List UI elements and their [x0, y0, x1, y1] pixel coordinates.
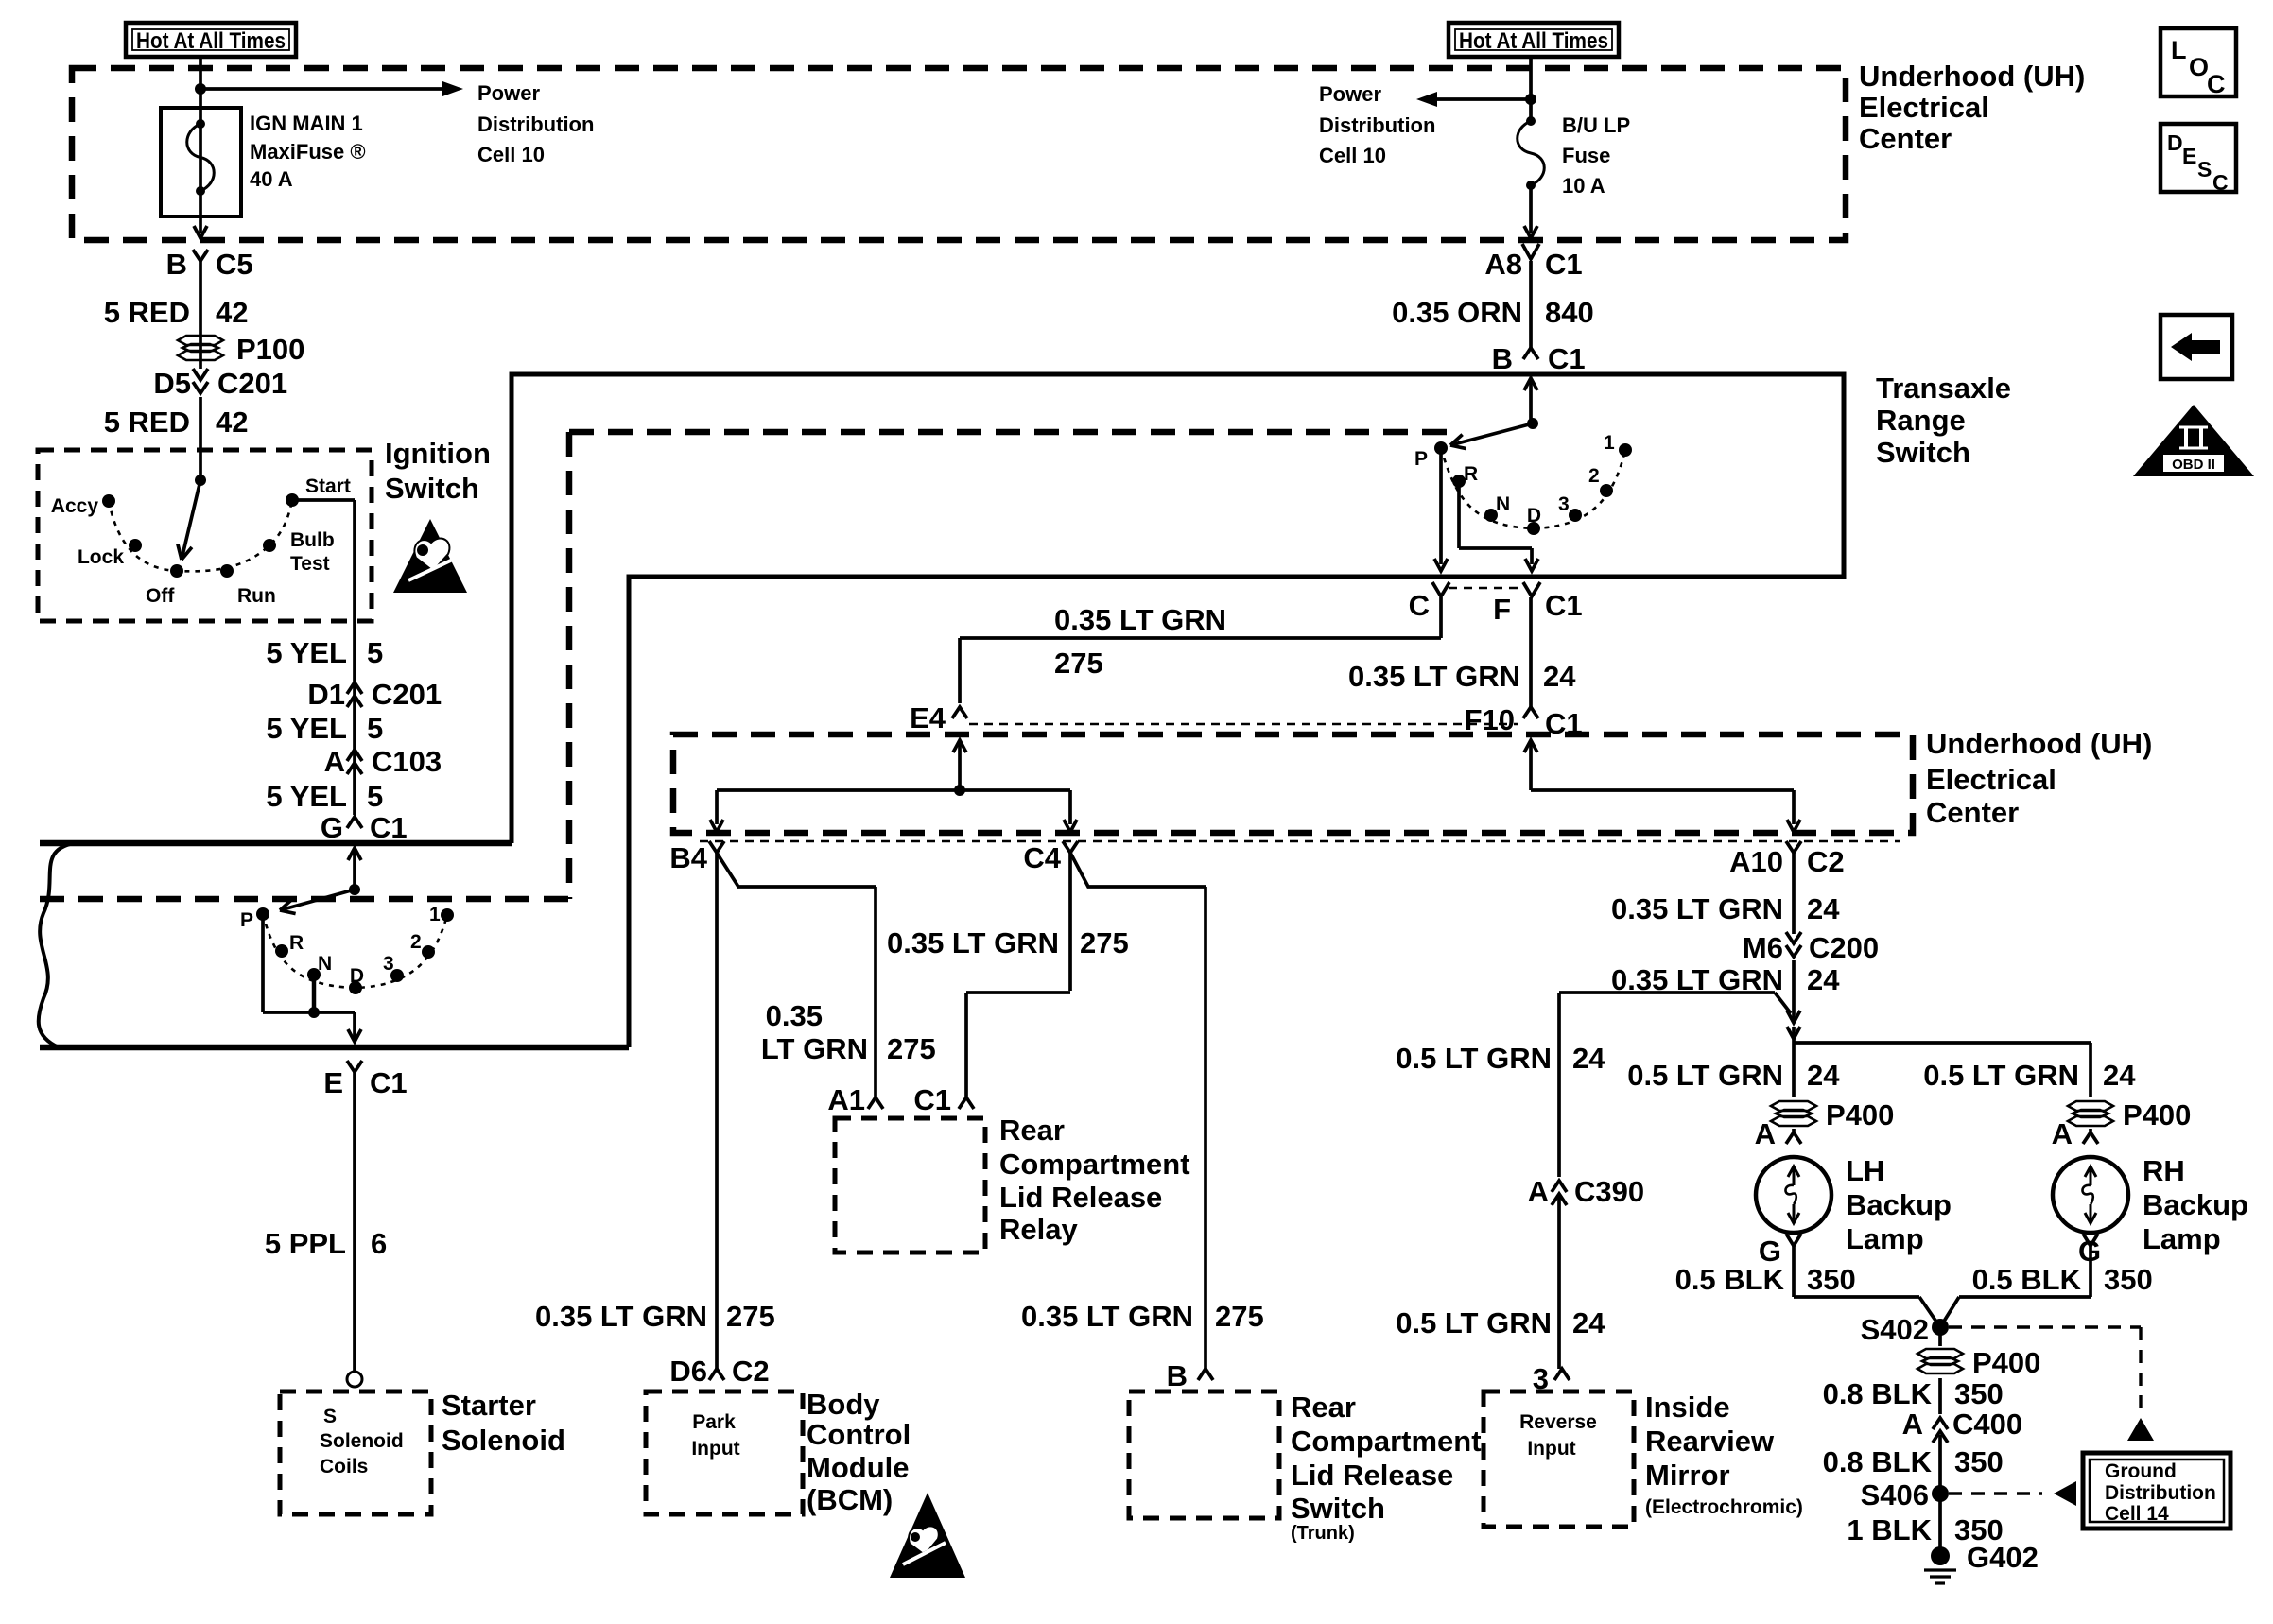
svg-text:3: 3: [1558, 493, 1570, 515]
svg-text:C1: C1: [913, 1083, 951, 1116]
svg-text:LH: LH: [1846, 1154, 1884, 1187]
svg-text:Input: Input: [1527, 1438, 1575, 1460]
svg-text:Center: Center: [1859, 122, 1952, 155]
svg-text:D: D: [2167, 130, 2183, 155]
svg-text:Module: Module: [807, 1451, 910, 1484]
svg-text:1: 1: [429, 904, 441, 925]
svg-text:C1: C1: [370, 811, 408, 844]
svg-text:Ground: Ground: [2105, 1460, 2177, 1482]
svg-text:S402: S402: [1861, 1313, 1929, 1346]
svg-text:1: 1: [1604, 432, 1615, 454]
svg-text:(Electrochromic): (Electrochromic): [1645, 1496, 1803, 1518]
svg-text:C2: C2: [732, 1355, 770, 1388]
svg-text:Mirror: Mirror: [1645, 1459, 1730, 1492]
svg-text:Test: Test: [290, 553, 330, 575]
svg-text:O: O: [2189, 53, 2209, 81]
svg-text:Bulb: Bulb: [290, 529, 335, 551]
svg-text:5 PPL: 5 PPL: [265, 1227, 346, 1260]
svg-text:Relay: Relay: [999, 1213, 1078, 1246]
svg-text:5 RED: 5 RED: [104, 296, 190, 329]
svg-text:D1: D1: [307, 678, 345, 711]
svg-text:Fuse: Fuse: [1562, 144, 1610, 167]
svg-text:Switch: Switch: [385, 472, 479, 505]
svg-text:C: C: [2207, 70, 2226, 98]
svg-text:Inside: Inside: [1645, 1391, 1730, 1424]
svg-text:C1: C1: [1545, 248, 1583, 281]
svg-text:24: 24: [1543, 660, 1576, 693]
svg-text:Starter: Starter: [442, 1389, 536, 1422]
svg-text:275: 275: [1215, 1300, 1264, 1333]
svg-text:Hot At All Times: Hot At All Times: [1459, 28, 1608, 54]
svg-text:0.35 LT GRN: 0.35 LT GRN: [1611, 892, 1783, 925]
svg-text:Compartment: Compartment: [1291, 1425, 1482, 1458]
svg-text:IGN MAIN 1: IGN MAIN 1: [250, 112, 363, 135]
svg-text:Lamp: Lamp: [1846, 1222, 1924, 1255]
svg-text:C400: C400: [1952, 1408, 2022, 1441]
svg-text:Backup: Backup: [2143, 1188, 2248, 1221]
svg-text:0.8 BLK: 0.8 BLK: [1823, 1445, 1933, 1478]
svg-text:Control: Control: [807, 1418, 911, 1451]
svg-text:Distribution: Distribution: [2105, 1482, 2216, 1504]
svg-text:Power: Power: [477, 81, 540, 105]
svg-text:24: 24: [1572, 1042, 1605, 1075]
svg-text:R: R: [289, 932, 304, 954]
svg-text:P: P: [1414, 448, 1428, 470]
svg-text:A: A: [1755, 1117, 1776, 1150]
svg-text:42: 42: [216, 296, 248, 329]
svg-text:Underhood (UH): Underhood (UH): [1926, 727, 2152, 760]
svg-text:F: F: [1493, 593, 1511, 626]
svg-text:0.5 BLK: 0.5 BLK: [1972, 1263, 2082, 1296]
svg-text:A10: A10: [1729, 845, 1783, 878]
svg-text:Solenoid: Solenoid: [442, 1424, 565, 1457]
svg-text:RH: RH: [2143, 1154, 2185, 1187]
svg-text:Coils: Coils: [320, 1456, 368, 1477]
svg-text:350: 350: [2104, 1263, 2153, 1296]
svg-text:0.5 LT GRN: 0.5 LT GRN: [1923, 1059, 2079, 1092]
svg-text:C: C: [2212, 170, 2229, 195]
svg-text:A: A: [1528, 1175, 1549, 1208]
svg-text:C1: C1: [1548, 342, 1586, 375]
svg-text:E: E: [2182, 144, 2196, 168]
svg-text:Park: Park: [692, 1411, 736, 1433]
svg-text:Switch: Switch: [1291, 1492, 1385, 1525]
svg-text:G402: G402: [1967, 1541, 2039, 1574]
svg-text:42: 42: [216, 406, 248, 439]
svg-text:LT GRN: LT GRN: [761, 1032, 868, 1065]
svg-text:24: 24: [1807, 892, 1840, 925]
svg-text:10 A: 10 A: [1562, 174, 1605, 198]
svg-text:24: 24: [1807, 1059, 1840, 1092]
svg-text:0.35 LT GRN: 0.35 LT GRN: [1021, 1300, 1193, 1333]
svg-text:24: 24: [2103, 1059, 2136, 1092]
svg-text:OBD II: OBD II: [2172, 457, 2215, 473]
svg-text:A: A: [1902, 1408, 1923, 1441]
svg-text:A8: A8: [1484, 248, 1522, 281]
svg-text:0.8 BLK: 0.8 BLK: [1823, 1377, 1933, 1410]
svg-text:350: 350: [1807, 1263, 1856, 1296]
svg-text:N: N: [1496, 493, 1510, 515]
svg-text:Backup: Backup: [1846, 1188, 1952, 1221]
svg-text:B: B: [1492, 342, 1513, 375]
svg-text:E4: E4: [910, 701, 946, 734]
svg-text:Off: Off: [146, 585, 175, 607]
svg-text:P400: P400: [1972, 1346, 2040, 1379]
svg-text:2: 2: [1588, 465, 1600, 487]
svg-text:1 BLK: 1 BLK: [1847, 1513, 1932, 1546]
svg-text:Electrical: Electrical: [1926, 763, 2056, 796]
svg-text:Lamp: Lamp: [2143, 1222, 2221, 1255]
svg-text:P: P: [240, 909, 253, 931]
svg-text:Run: Run: [237, 585, 276, 607]
svg-text:A: A: [324, 745, 345, 778]
svg-text:D: D: [1527, 505, 1541, 527]
svg-text:C5: C5: [216, 248, 253, 281]
svg-text:C: C: [1409, 589, 1430, 622]
svg-text:0.35: 0.35: [766, 999, 823, 1032]
svg-text:0.35 LT GRN: 0.35 LT GRN: [887, 926, 1059, 959]
svg-text:Input: Input: [691, 1438, 739, 1460]
svg-text:275: 275: [1080, 926, 1129, 959]
svg-text:0.35 LT GRN: 0.35 LT GRN: [535, 1300, 707, 1333]
svg-text:C201: C201: [372, 678, 442, 711]
svg-text:P400: P400: [2123, 1098, 2191, 1132]
svg-text:M6: M6: [1743, 931, 1783, 964]
svg-text:D5: D5: [153, 367, 191, 400]
svg-text:N: N: [318, 953, 332, 975]
svg-text:Distribution: Distribution: [477, 112, 594, 136]
svg-text:B/U LP: B/U LP: [1562, 113, 1630, 137]
svg-text:C4: C4: [1023, 841, 1061, 874]
svg-text:Rear: Rear: [1291, 1391, 1356, 1424]
svg-text:MaxiFuse ®: MaxiFuse ®: [250, 140, 366, 164]
svg-text:275: 275: [726, 1300, 775, 1333]
svg-text:S406: S406: [1861, 1478, 1929, 1512]
svg-text:5 RED: 5 RED: [104, 406, 190, 439]
svg-text:Compartment: Compartment: [999, 1148, 1190, 1181]
svg-text:0.5 BLK: 0.5 BLK: [1675, 1263, 1785, 1296]
svg-text:3: 3: [383, 953, 394, 975]
svg-text:Body: Body: [807, 1388, 880, 1421]
svg-text:L: L: [2171, 36, 2187, 64]
svg-text:B: B: [166, 248, 187, 281]
svg-text:Cell 10: Cell 10: [1319, 144, 1386, 167]
svg-text:5 YEL: 5 YEL: [266, 780, 347, 813]
svg-text:6: 6: [371, 1227, 387, 1260]
svg-text:Lock: Lock: [78, 546, 124, 568]
svg-text:24: 24: [1807, 963, 1840, 996]
svg-text:24: 24: [1572, 1306, 1605, 1339]
svg-text:C201: C201: [217, 367, 287, 400]
svg-text:275: 275: [887, 1032, 936, 1065]
svg-text:5: 5: [367, 636, 383, 669]
svg-text:0.35 ORN: 0.35 ORN: [1392, 296, 1522, 329]
svg-text:Distribution: Distribution: [1319, 113, 1435, 137]
svg-text:B4: B4: [669, 841, 707, 874]
svg-text:Power: Power: [1319, 82, 1381, 106]
svg-text:Hot At All Times: Hot At All Times: [136, 28, 286, 54]
svg-text:Lid Release: Lid Release: [999, 1181, 1162, 1214]
svg-text:Solenoid: Solenoid: [320, 1430, 404, 1452]
svg-text:5 YEL: 5 YEL: [266, 636, 347, 669]
svg-text:D6: D6: [669, 1355, 707, 1388]
svg-text:350: 350: [1954, 1377, 2004, 1410]
svg-text:C1: C1: [370, 1066, 408, 1099]
svg-text:P100: P100: [236, 333, 304, 366]
svg-text:A1: A1: [827, 1083, 865, 1116]
svg-text:A: A: [2052, 1117, 2073, 1150]
svg-text:C103: C103: [372, 745, 442, 778]
svg-text:C390: C390: [1574, 1175, 1644, 1208]
svg-text:C1: C1: [1545, 589, 1583, 622]
svg-text:5 YEL: 5 YEL: [266, 712, 347, 745]
svg-text:(Trunk): (Trunk): [1291, 1523, 1355, 1544]
svg-text:D: D: [350, 965, 364, 987]
svg-text:Range: Range: [1876, 404, 1966, 437]
svg-text:Reverse: Reverse: [1519, 1411, 1597, 1433]
svg-text:Center: Center: [1926, 796, 2019, 829]
svg-text:275: 275: [1054, 647, 1103, 680]
svg-text:(BCM): (BCM): [807, 1483, 893, 1516]
svg-text:840: 840: [1545, 296, 1594, 329]
svg-text:Switch: Switch: [1876, 436, 1970, 469]
svg-text:E: E: [323, 1066, 343, 1099]
svg-text:P400: P400: [1826, 1098, 1894, 1132]
svg-text:40 A: 40 A: [250, 167, 293, 191]
svg-text:5: 5: [367, 780, 383, 813]
svg-text:0.5 LT GRN: 0.5 LT GRN: [1396, 1306, 1552, 1339]
svg-text:Transaxle: Transaxle: [1876, 371, 2011, 405]
svg-text:S: S: [2197, 157, 2212, 181]
svg-text:0.35 LT GRN: 0.35 LT GRN: [1348, 660, 1520, 693]
svg-text:Electrical: Electrical: [1859, 91, 1989, 124]
svg-text:Cell 10: Cell 10: [477, 143, 545, 166]
svg-text:Ignition: Ignition: [385, 437, 491, 470]
svg-text:G: G: [321, 811, 343, 844]
svg-text:350: 350: [1954, 1445, 2004, 1478]
svg-text:R: R: [1464, 463, 1478, 485]
svg-text:2: 2: [410, 931, 422, 953]
svg-text:0.5 LT GRN: 0.5 LT GRN: [1627, 1059, 1783, 1092]
svg-text:0.5 LT GRN: 0.5 LT GRN: [1396, 1042, 1552, 1075]
svg-text:Underhood (UH): Underhood (UH): [1859, 60, 2085, 93]
svg-text:C2: C2: [1807, 845, 1845, 878]
svg-text:Start: Start: [305, 475, 351, 497]
svg-text:0.35 LT GRN: 0.35 LT GRN: [1054, 603, 1226, 636]
svg-text:Cell 14: Cell 14: [2105, 1503, 2169, 1525]
svg-text:B: B: [1167, 1359, 1188, 1392]
svg-text:Rearview: Rearview: [1645, 1425, 1775, 1458]
svg-text:C200: C200: [1809, 931, 1879, 964]
svg-text:S: S: [323, 1406, 337, 1427]
svg-text:Lid Release: Lid Release: [1291, 1459, 1453, 1492]
svg-text:5: 5: [367, 712, 383, 745]
svg-text:Accy: Accy: [51, 495, 99, 517]
svg-text:Rear: Rear: [999, 1114, 1065, 1147]
